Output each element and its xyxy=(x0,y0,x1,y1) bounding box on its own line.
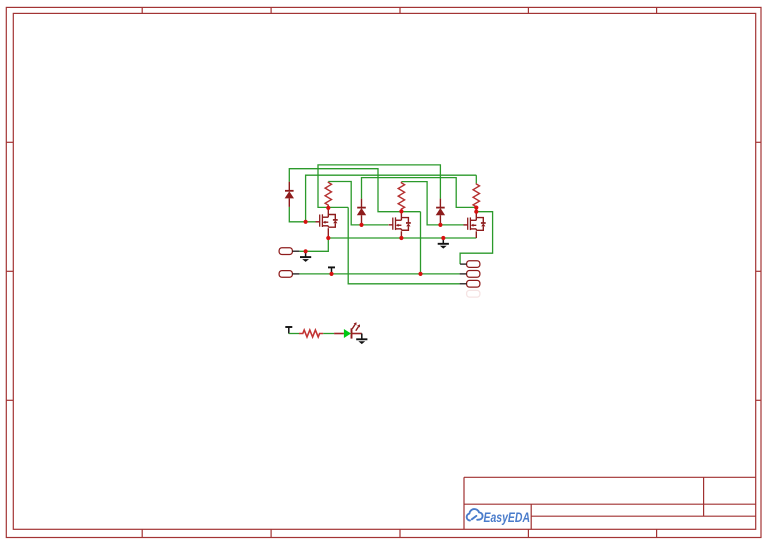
wire M1 source to P1 xyxy=(299,238,328,251)
wire R1 top to gate2 xyxy=(328,182,388,225)
junction output 2 xyxy=(418,272,422,276)
wire top rail (D3 cathode to ch1 drain) xyxy=(318,165,440,208)
junction R1 bottom / Q1 drain xyxy=(326,206,330,210)
connector P3 xyxy=(460,261,480,268)
junction D2 anode / Q2 gate xyxy=(359,223,363,227)
transistor Q1 xyxy=(316,207,338,238)
wire gate1 riser xyxy=(306,175,477,222)
ground G1 xyxy=(300,251,311,262)
connector P5 xyxy=(460,280,480,287)
junction T1 net xyxy=(329,272,333,276)
wire input P2 to output 2 xyxy=(299,273,459,275)
ground G2 xyxy=(438,238,449,249)
wire R4 to LED xyxy=(323,333,334,335)
junction D3 anode / Q3 gate xyxy=(438,223,442,227)
junction ground rail xyxy=(441,236,445,240)
ghost pad xyxy=(467,290,480,297)
junction Q2 source xyxy=(399,236,403,240)
connector P1 xyxy=(279,248,299,255)
resistor R4 xyxy=(299,330,323,337)
svg-text:EasyEDA: EasyEDA xyxy=(484,510,531,525)
wire D2 cathode to R3 bottom xyxy=(362,178,477,208)
junction R3 bottom xyxy=(474,206,478,210)
title block xyxy=(464,477,756,529)
junction Q1 gate net xyxy=(304,220,308,224)
junction Q1 source xyxy=(326,236,330,240)
wire M2 drain dot stub xyxy=(400,210,402,212)
transistor Q2 xyxy=(389,212,411,238)
junction R2 bottom / Q2 drain xyxy=(399,209,403,213)
ground G3 xyxy=(356,334,367,345)
wire ch3 drain to connector xyxy=(460,212,493,264)
LED LED1 xyxy=(334,322,362,338)
connector P4 xyxy=(460,271,480,278)
junction P1 / ground xyxy=(304,249,308,253)
wire D1 cathode to ch2 drain xyxy=(289,169,420,212)
EasyEDA logo xyxy=(467,509,530,525)
resistor R1 xyxy=(325,182,331,208)
netflag T1 xyxy=(328,267,335,274)
netflag T2 xyxy=(285,327,292,334)
junction Q3 drain xyxy=(474,210,478,214)
resistor R3 xyxy=(473,183,479,207)
diode D1 xyxy=(285,182,294,207)
wire ch2 drain to output 2 xyxy=(420,212,422,274)
wire ch1 drain to output 3 xyxy=(348,207,459,283)
transistor Q3 xyxy=(464,207,486,238)
resistor R2 xyxy=(398,182,404,212)
wire R3 top riser xyxy=(475,175,477,183)
diode D3 xyxy=(436,199,445,225)
connector P2 xyxy=(279,271,299,278)
wire T2 to R4 xyxy=(289,333,299,335)
wire source rail xyxy=(328,237,476,239)
wire R2 top to gate3 xyxy=(401,182,463,225)
diode D2 xyxy=(357,199,366,225)
wire gate1 xyxy=(289,207,315,222)
